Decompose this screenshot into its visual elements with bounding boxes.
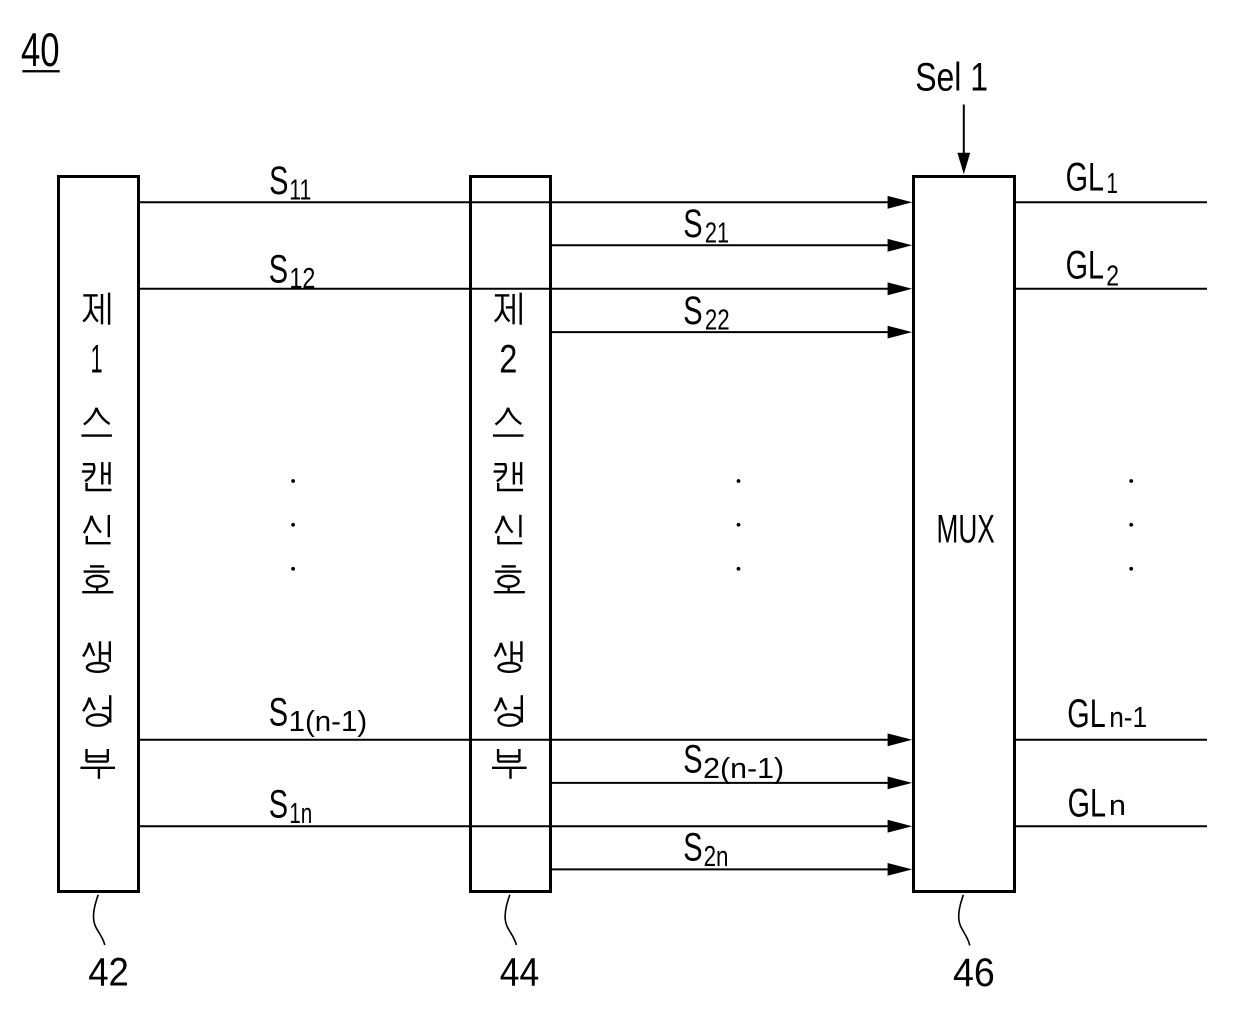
svg-text:GL: GL bbox=[1066, 156, 1104, 200]
svg-text:S: S bbox=[683, 738, 702, 782]
svg-text:S: S bbox=[269, 690, 288, 734]
svg-text:44: 44 bbox=[500, 951, 539, 995]
svg-text:11: 11 bbox=[289, 175, 311, 207]
svg-text:n: n bbox=[1109, 790, 1126, 822]
svg-text:S: S bbox=[683, 826, 702, 870]
svg-text:22: 22 bbox=[705, 305, 730, 337]
svg-text:2(n-1): 2(n-1) bbox=[703, 753, 784, 785]
svg-text:1(n-1): 1(n-1) bbox=[289, 706, 368, 738]
svg-text:S: S bbox=[269, 159, 288, 203]
svg-text:2n: 2n bbox=[704, 841, 729, 873]
svg-text:S: S bbox=[269, 247, 288, 291]
svg-text:S: S bbox=[683, 289, 702, 333]
svg-text:n-1: n-1 bbox=[1109, 702, 1147, 734]
svg-text:Sel 1: Sel 1 bbox=[915, 56, 988, 100]
svg-text:1n: 1n bbox=[289, 798, 312, 830]
svg-text:46: 46 bbox=[953, 951, 995, 995]
svg-text:1: 1 bbox=[1106, 168, 1118, 200]
svg-text:21: 21 bbox=[705, 217, 729, 249]
svg-text:GL: GL bbox=[1068, 782, 1106, 826]
svg-text:2: 2 bbox=[1106, 261, 1119, 293]
svg-text:2: 2 bbox=[499, 337, 517, 381]
svg-text:S: S bbox=[269, 783, 288, 827]
svg-text:12: 12 bbox=[289, 263, 315, 295]
svg-text:GL: GL bbox=[1067, 692, 1105, 736]
svg-text:S: S bbox=[683, 202, 702, 246]
svg-text:42: 42 bbox=[88, 951, 129, 995]
svg-text:1: 1 bbox=[91, 337, 103, 381]
svg-text:GL: GL bbox=[1066, 244, 1104, 288]
svg-text:MUX: MUX bbox=[937, 508, 995, 552]
svg-text:40: 40 bbox=[21, 23, 60, 76]
